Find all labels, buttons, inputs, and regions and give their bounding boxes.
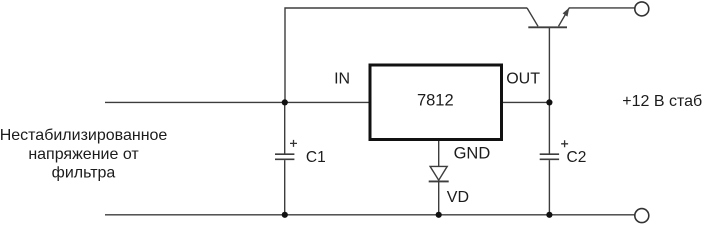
svg-text:VD: VD [447, 189, 469, 206]
svg-text:+12 В стаб: +12 В стаб [622, 93, 702, 110]
svg-text:7812: 7812 [417, 91, 454, 109]
svg-text:IN: IN [334, 70, 350, 87]
svg-text:фильтра: фильтра [52, 164, 116, 181]
svg-text:C2: C2 [567, 149, 587, 166]
svg-text:Нестабилизированное: Нестабилизированное [0, 127, 167, 144]
svg-text:C1: C1 [306, 149, 326, 166]
svg-text:OUT: OUT [506, 70, 540, 87]
svg-text:GND: GND [454, 145, 491, 163]
svg-text:напряжение от: напряжение от [28, 146, 139, 163]
